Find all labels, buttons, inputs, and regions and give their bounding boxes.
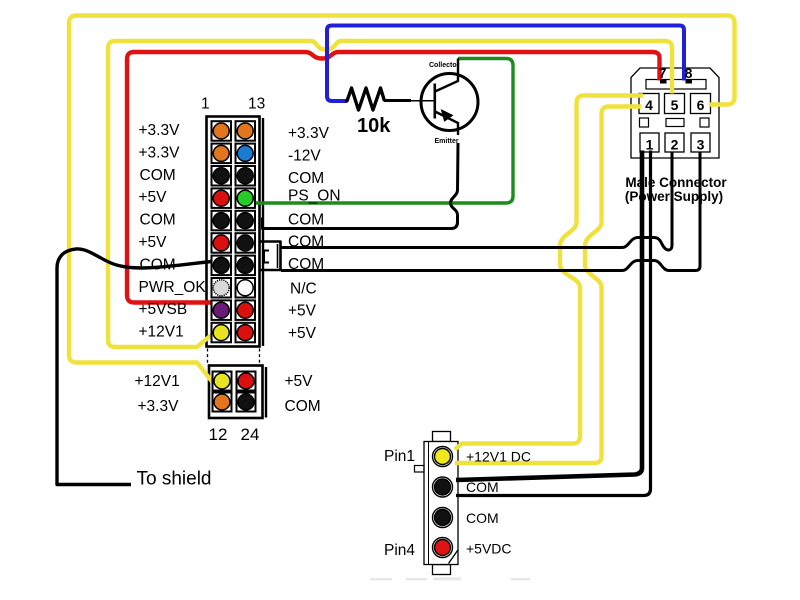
svg-text:(Power Supply): (Power Supply) <box>625 189 723 204</box>
male pin box 5 <box>665 94 685 114</box>
svg-text:+5V: +5V <box>139 234 168 251</box>
svg-text:+5V: +5V <box>285 373 314 390</box>
svg-text:Emitter: Emitter <box>435 138 459 145</box>
svg-text:PWR_OK: PWR_OK <box>139 279 207 296</box>
pin 15 cell <box>236 166 256 186</box>
pin 4 cell <box>212 188 232 208</box>
svg-text:24: 24 <box>241 425 260 444</box>
pin 4 circle red +5V <box>213 190 229 206</box>
pin 8 cell <box>212 278 232 298</box>
svg-text:COM: COM <box>140 167 176 184</box>
svg-text:COM: COM <box>288 212 324 229</box>
molex inner left wall <box>428 442 430 565</box>
transistor collector diagonal <box>435 59 458 92</box>
pin 2 cell <box>212 144 232 164</box>
4pin cell 23 <box>237 372 256 391</box>
wire red: ATX +5VSB pin 9 to male connector pin 7 <box>127 52 660 303</box>
wire green: ATX PS_ON pin to transistor collector <box>251 59 513 204</box>
dashed link left <box>207 349 209 365</box>
svg-text:+5V: +5V <box>288 325 317 342</box>
male spacer middle <box>666 119 684 127</box>
pin 2 circle orange +3.3V <box>213 145 229 161</box>
pin 19 circle black COM <box>237 257 253 273</box>
transistor body circle <box>421 74 478 131</box>
pin 17 circle black COM <box>237 213 253 229</box>
male connector slot tick 7 <box>660 80 667 84</box>
pin 18 cell <box>236 233 256 253</box>
svg-text:6: 6 <box>697 97 705 113</box>
transistor emitter diagonal <box>435 112 458 136</box>
pin 10 circle yellow +12V1 <box>213 325 229 341</box>
svg-text:2: 2 <box>671 137 679 153</box>
pin 21 circle red +5V <box>237 302 253 318</box>
svg-text:Collector: Collector <box>429 62 460 69</box>
molex bottom tab <box>433 565 451 575</box>
resistor lead thick <box>384 99 411 102</box>
resistor R 10k <box>345 88 385 110</box>
molex top tab <box>433 432 451 442</box>
male pin box 2 <box>665 133 684 152</box>
molex bottom-right chamfer <box>449 550 458 564</box>
pin 3 cell <box>212 166 232 186</box>
svg-text:12: 12 <box>209 425 228 444</box>
svg-text:+3.3V: +3.3V <box>138 398 180 415</box>
4pin cell 11 <box>213 372 232 391</box>
4pin circle yellow +12V1 <box>214 373 230 389</box>
svg-text:COM: COM <box>466 479 499 495</box>
wire black: ATX COM pin 7R to male pin 3 <box>281 152 700 271</box>
wire blue: resistor input to male connector pin 8 <box>327 26 684 102</box>
pin 3 circle black COM <box>213 168 229 184</box>
pin 10 cell <box>212 323 232 343</box>
svg-text:+5VDC: +5VDC <box>466 541 512 557</box>
svg-text:Pin4: Pin4 <box>384 542 415 559</box>
svg-text:N/C: N/C <box>290 280 317 297</box>
wire yellow inner: ATX +12V1 pin 10 to male pin 5 via top <box>108 41 672 347</box>
pin 22 cell <box>236 323 256 343</box>
svg-text:COM: COM <box>288 256 324 273</box>
svg-text:COM: COM <box>288 170 324 187</box>
wire yellow: male pin 4 to molex pin 1 (right) <box>455 107 641 464</box>
pin 14 cell <box>236 144 256 164</box>
4pin cell 24 <box>237 393 256 412</box>
ATX connector right shadow line <box>262 118 264 346</box>
4pin circle red +5V <box>238 373 254 389</box>
svg-text:+12V1: +12V1 <box>135 373 180 390</box>
pin 16 circle green PS_ON <box>237 190 253 206</box>
pin 21 cell <box>236 300 256 320</box>
wire black: ATX COM pin 6R to male pin 2 <box>281 153 672 250</box>
ATX 24-pin connector body <box>207 117 260 347</box>
pin 18 circle black COM <box>237 235 253 251</box>
dashed link right <box>259 349 261 365</box>
pin 5 circle black COM <box>213 213 229 229</box>
svg-text:Pin1: Pin1 <box>384 448 415 465</box>
wire yellow outer: ATX 4-pin +12V1 to male pin 6 via top <box>69 16 735 382</box>
male spacer left <box>640 118 649 127</box>
molex body <box>424 442 458 565</box>
faint erased text remnant <box>370 578 530 581</box>
ATX 4-pin section body <box>209 366 263 419</box>
pin 20 cell <box>236 278 256 298</box>
svg-text:+12V1 DC: +12V1 DC <box>466 449 531 465</box>
svg-text:COM: COM <box>140 256 176 273</box>
svg-text:13: 13 <box>248 96 265 113</box>
4pin cell 12 <box>213 393 232 412</box>
male connector top slot <box>646 80 706 90</box>
pin 6 cell <box>212 233 232 253</box>
molex pin 2 black COM <box>433 477 453 497</box>
pin 8 circle gray PWR_OK <box>213 280 229 296</box>
svg-text:+3.3V: +3.3V <box>139 122 181 139</box>
transistor base bar <box>433 84 436 119</box>
svg-text:+3.3V: +3.3V <box>288 125 330 142</box>
pin 20 circle white N/C <box>237 280 253 296</box>
pin 5 cell <box>212 211 232 231</box>
pin 19 cell <box>236 256 256 276</box>
pin 1 cell <box>212 121 232 141</box>
svg-text:COM: COM <box>466 510 499 526</box>
male pin box 6 <box>691 94 711 114</box>
svg-text:3: 3 <box>697 137 705 153</box>
4pin circle orange +3.3V <box>214 394 230 410</box>
junction bracket at ATX COM pins 6R/7R <box>260 242 281 271</box>
svg-text:5: 5 <box>671 97 679 113</box>
pin 16 cell <box>236 188 256 208</box>
pin 9 cell <box>212 300 232 320</box>
pin 7 cell <box>212 256 232 276</box>
svg-text:4: 4 <box>645 97 653 113</box>
pin 15 circle black COM <box>237 168 253 184</box>
pin 13 cell <box>236 121 256 141</box>
molex pin 4 red +5VDC <box>433 538 453 558</box>
molex pin 3 black COM <box>433 508 453 528</box>
male connector slot tick 8 <box>686 80 693 84</box>
male spacer right <box>700 118 709 127</box>
4pin circle black COM <box>238 394 254 410</box>
svg-text:1: 1 <box>201 96 210 113</box>
pin 14 circle blue -12V <box>237 145 253 161</box>
wire black: ATX COM pin 7L to shield <box>57 249 211 485</box>
svg-text:+3.3V: +3.3V <box>139 144 181 161</box>
transistor emitter arrow <box>442 110 453 121</box>
svg-text:+5V: +5V <box>139 189 168 206</box>
svg-text:7: 7 <box>659 65 667 81</box>
wire black: transistor emitter to ATX COM pin 5R <box>263 143 459 229</box>
junction bracket small hook <box>264 251 269 263</box>
svg-text:+5V: +5V <box>288 303 317 320</box>
svg-text:COM: COM <box>288 234 324 251</box>
molex pin 1 yellow +12V1 <box>433 447 453 467</box>
pin 7 circle black COM <box>213 257 229 273</box>
svg-text:To shield: To shield <box>137 469 212 490</box>
pin 17 cell <box>236 211 256 231</box>
wire black: male pin 1 to molex COM (first) <box>456 151 642 481</box>
wire black: male pin 1 to molex COM (second) <box>456 151 651 496</box>
pin 22 circle red +5V <box>237 325 253 341</box>
svg-text:COM: COM <box>140 212 176 229</box>
svg-text:+5VSB: +5VSB <box>139 301 188 318</box>
pin 1 circle orange +3.3V <box>213 123 229 139</box>
male pin box 3 <box>691 133 710 152</box>
svg-text:PS_ON: PS_ON <box>288 188 341 205</box>
junction bracket inner line <box>277 244 279 268</box>
male pin box 1 <box>640 133 659 152</box>
pin cells left column <box>212 121 256 411</box>
svg-text:8: 8 <box>685 65 693 81</box>
ATX 4-pin section shadow line <box>265 367 267 418</box>
resistor lead to base <box>410 100 436 102</box>
svg-text:-12V: -12V <box>288 147 321 164</box>
male connector body <box>631 68 719 158</box>
svg-text:1: 1 <box>646 137 654 153</box>
svg-text:COM: COM <box>285 398 321 415</box>
male pin box 4 <box>639 94 659 114</box>
svg-text:Male Connector: Male Connector <box>625 175 727 190</box>
wire yellow: male pin 4 to molex pin 1 (left) <box>455 96 643 450</box>
pin 13 circle orange +3.3V <box>237 123 253 139</box>
svg-text:+12V1: +12V1 <box>139 324 184 341</box>
pin 9 circle purple +5VSB <box>213 302 229 318</box>
molex left nub <box>415 466 425 473</box>
pin 6 circle red +5V <box>213 235 229 251</box>
svg-text:10k: 10k <box>357 115 391 137</box>
